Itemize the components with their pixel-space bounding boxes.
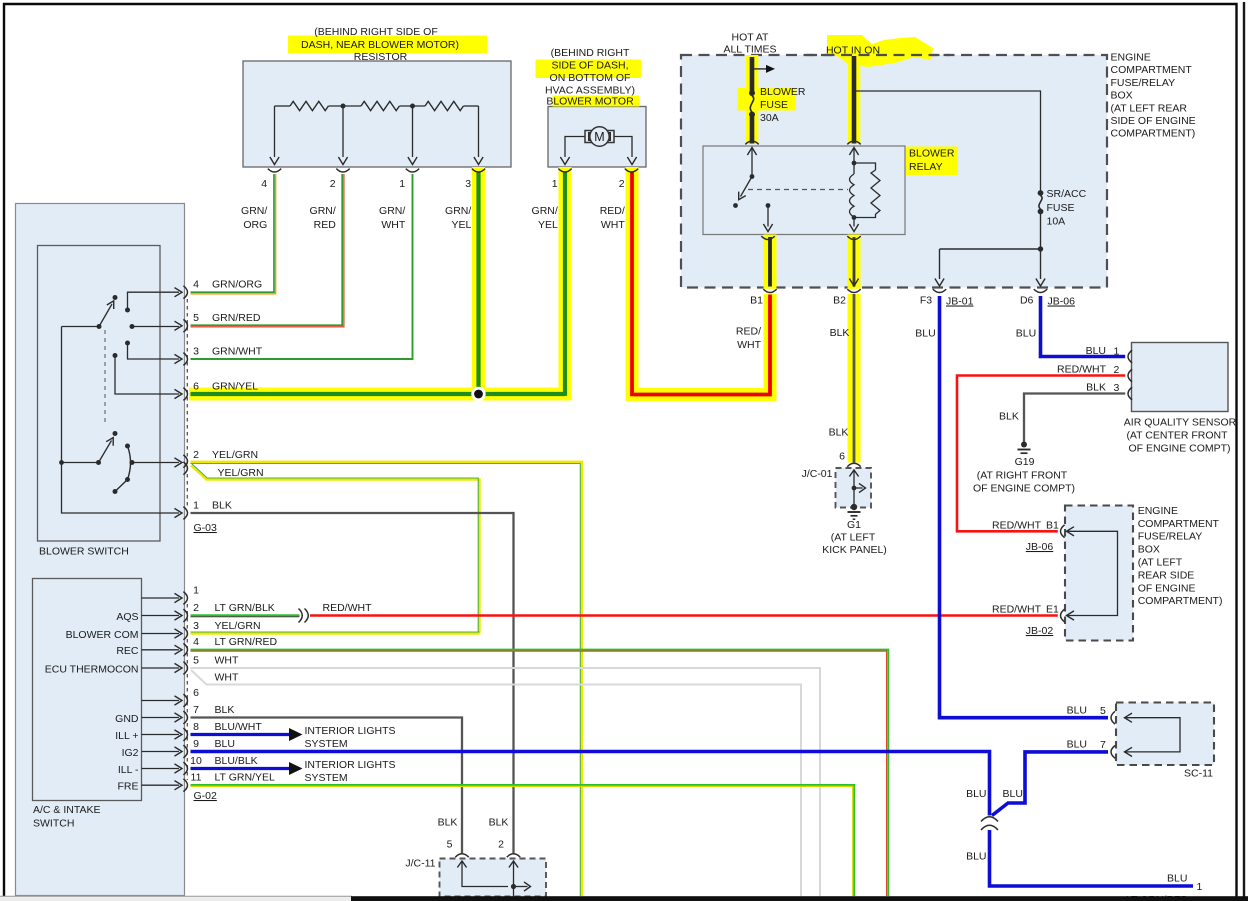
junction connector J/C-01 box — [836, 468, 872, 508]
svg-text:(AT RIGHT FRONT: (AT RIGHT FRONT — [977, 470, 1068, 482]
motor pin receptacles — [558, 169, 571, 172]
svg-text:(BEHIND RIGHT SIDE OF: (BEHIND RIGHT SIDE OF — [314, 26, 437, 38]
svg-text:RED/WHT: RED/WHT — [992, 520, 1042, 532]
svg-text:WHT: WHT — [215, 654, 239, 666]
svg-text:FUSE/RELAY: FUSE/RELAY — [1138, 531, 1203, 543]
svg-text:BLK: BLK — [830, 327, 850, 339]
svg-text:2: 2 — [498, 839, 504, 851]
svg-text:WHT: WHT — [601, 219, 625, 231]
blower switch outer box — [16, 204, 185, 896]
svg-text:BLU: BLU — [1003, 788, 1023, 800]
svg-text:BLU/WHT: BLU/WHT — [215, 721, 263, 733]
svg-text:BLU: BLU — [1086, 345, 1106, 357]
svg-text:RELAY: RELAY — [909, 161, 943, 173]
JB-02 E1 entry — [1061, 609, 1065, 622]
contact lo3 — [130, 460, 135, 465]
wire HOT AT ALL TIMES black core — [750, 57, 755, 91]
resistor pin3 lead — [478, 106, 480, 157]
svg-text:BOX: BOX — [1138, 544, 1160, 556]
band gap at B1 terminal — [763, 289, 778, 294]
svg-text:BOX: BOX — [1111, 90, 1133, 102]
svg-text:AQS: AQS — [116, 611, 138, 623]
relay pin 30 lead — [747, 148, 756, 156]
pin brackets G-02 — [183, 592, 187, 605]
resistor R3 — [425, 101, 463, 110]
svg-text:5: 5 — [193, 312, 199, 324]
svg-text:ILL -: ILL - — [118, 764, 139, 776]
svg-text:SC-11: SC-11 — [1184, 768, 1213, 780]
J/C-01 entry receptacle — [847, 463, 860, 466]
svg-text:6: 6 — [839, 451, 845, 463]
relay coil top node — [852, 161, 857, 166]
svg-text:OF ENGINE COMPT): OF ENGINE COMPT) — [973, 483, 1075, 495]
J/C-01 junction node — [852, 486, 857, 491]
svg-text:RED/: RED/ — [736, 326, 761, 338]
svg-text:4: 4 — [193, 636, 199, 648]
svg-text:3: 3 — [465, 178, 471, 190]
highlight motor caption lines — [536, 60, 642, 79]
wire GRN/RED pin5 — [191, 174, 343, 325]
svg-text:JB-06: JB-06 — [1026, 541, 1054, 553]
svg-text:BLU: BLU — [1016, 328, 1036, 340]
fuse box terminals B1 B2 F3 D6 — [763, 289, 776, 292]
svg-text:INTERIOR LIGHTS: INTERIOR LIGHTS — [305, 759, 396, 771]
node resistor tap1 — [410, 104, 415, 109]
svg-text:INTERIOR LIGHTS: INTERIOR LIGHTS — [305, 725, 396, 737]
highlight band HOT AT ALL TIMES wire — [746, 55, 759, 144]
svg-text:WHT: WHT — [215, 672, 239, 684]
svg-text:FRE: FRE — [118, 781, 139, 793]
svg-text:BLK: BLK — [438, 817, 458, 829]
blower motor box — [548, 107, 646, 168]
svg-text:(BEHIND RIGHT: (BEHIND RIGHT — [551, 47, 630, 59]
svg-text:5: 5 — [1100, 705, 1106, 717]
svg-text:B1: B1 — [750, 295, 763, 307]
J/C-01 internal wire — [849, 470, 858, 477]
svg-text:GRN/: GRN/ — [379, 205, 405, 217]
wire YEL/GRN pin3 — [191, 632, 480, 634]
svg-text:G-02: G-02 — [194, 790, 218, 802]
svg-text:5: 5 — [193, 654, 199, 666]
svg-text:1: 1 — [1197, 881, 1203, 893]
inline connector pin2 — [299, 609, 303, 623]
motor M1 leads — [565, 137, 585, 158]
svg-text:BLOWER COM: BLOWER COM — [66, 629, 139, 641]
wire BLU/WHT pin8 — [191, 733, 291, 736]
relay NO contact — [766, 203, 771, 208]
svg-text:(AT CENTER FRONT: (AT CENTER FRONT — [1126, 430, 1228, 442]
svg-text:GRN/: GRN/ — [310, 205, 336, 217]
svg-text:LT GRN/YEL: LT GRN/YEL — [215, 772, 275, 784]
blower switch inner box — [38, 246, 161, 542]
svg-text:FUSE/RELAY: FUSE/RELAY — [1111, 77, 1176, 89]
svg-text:REAR SIDE: REAR SIDE — [1138, 569, 1195, 581]
svg-text:10: 10 — [190, 755, 202, 767]
highlight band B2 BLK wire — [848, 235, 861, 463]
hot feed arrow — [754, 68, 767, 70]
svg-text:REC: REC — [116, 645, 139, 657]
svg-text:10A: 10A — [1047, 216, 1066, 228]
mechanical link dashed — [104, 330, 106, 424]
svg-text:GRN/RED: GRN/RED — [212, 312, 261, 324]
wire BLK blower switch pin1 — [191, 513, 514, 853]
relay coil bottom node — [852, 215, 857, 220]
svg-text:LT GRN/BLK: LT GRN/BLK — [215, 602, 275, 614]
svg-text:BLU: BLU — [1067, 705, 1087, 717]
motor M1 symbol — [585, 131, 614, 143]
svg-text:JB-01: JB-01 — [946, 296, 974, 308]
svg-text:3: 3 — [1114, 382, 1120, 394]
svg-text:1: 1 — [193, 499, 199, 511]
svg-text:2: 2 — [193, 449, 199, 461]
highlight BLOWER FUSE label — [738, 88, 797, 111]
contact lo5 — [113, 489, 118, 494]
relay common node — [750, 174, 755, 179]
contact hi — [113, 295, 118, 300]
contact lo4 — [125, 477, 130, 482]
air quality sensor box — [1132, 343, 1229, 412]
svg-text:BLK: BLK — [212, 499, 232, 511]
svg-text:11: 11 — [191, 772, 202, 784]
svg-text:JB-06: JB-06 — [1048, 296, 1076, 308]
svg-text:BLOWER: BLOWER — [760, 86, 806, 98]
svg-text:ENGINE: ENGINE — [1138, 505, 1178, 517]
svg-text:6: 6 — [193, 380, 199, 392]
JB internal link — [1067, 527, 1075, 536]
fuse/relay box JB right (dashed) — [1065, 506, 1133, 641]
wire BLK sensor pin3 to G19 — [1024, 394, 1125, 443]
blower switch rail — [62, 326, 100, 328]
highlight band motor pin1 GRN/YEL wire — [559, 167, 572, 388]
svg-text:GRN/: GRN/ — [241, 205, 267, 217]
svg-text:FUSE: FUSE — [760, 99, 788, 111]
svg-text:COMPARTMENT: COMPARTMENT — [1138, 518, 1220, 530]
engine compartment fuse/relay box (dashed) — [681, 55, 1107, 288]
contact arc lower — [115, 446, 131, 492]
svg-text:GRN/ORG: GRN/ORG — [212, 279, 262, 291]
svg-text:GRN/: GRN/ — [445, 205, 471, 217]
relay resistor branch — [854, 163, 876, 170]
relay coil feed — [849, 148, 858, 156]
svg-text:ON BOTTOM OF: ON BOTTOM OF — [550, 72, 631, 84]
svg-text:ORG: ORG — [243, 219, 267, 231]
wire BLU D6 to sensor pin1 — [1041, 296, 1126, 357]
connector SC-11 box — [1116, 703, 1214, 766]
contact pin3 lead — [125, 341, 130, 346]
resistor box — [243, 61, 511, 167]
svg-text:(AT LEFT: (AT LEFT — [831, 532, 876, 544]
svg-text:SWITCH: SWITCH — [33, 818, 74, 830]
svg-text:SYSTEM: SYSTEM — [305, 772, 348, 784]
resistor R1 — [290, 101, 328, 110]
svg-text:OF ENGINE: OF ENGINE — [1138, 582, 1196, 594]
svg-text:RESISTOR: RESISTOR — [354, 51, 408, 63]
right sidebar line — [1243, 2, 1245, 901]
highlight BLOWER MOTOR caption — [553, 96, 640, 107]
connector G-03 dashed boundary — [186, 299, 188, 507]
relay output lead — [767, 206, 769, 227]
svg-text:SIDE OF DASH,: SIDE OF DASH, — [551, 60, 628, 72]
wire RED/WHT sensor pin2 to JB-06 B1 — [957, 376, 1125, 532]
svg-text:J/C-11: J/C-11 — [405, 858, 435, 870]
bottom gray strip — [0, 896, 352, 901]
svg-text:BLU: BLU — [915, 328, 935, 340]
wire LT GRN/YEL pin11 — [191, 785, 855, 896]
svg-text:2: 2 — [1114, 364, 1120, 376]
svg-text:ENGINE: ENGINE — [1111, 52, 1151, 64]
svg-text:SR/ACC: SR/ACC — [1047, 188, 1087, 200]
svg-text:2: 2 — [330, 178, 336, 190]
svg-text:IG2: IG2 — [122, 747, 139, 759]
svg-text:JB-02: JB-02 — [1026, 625, 1054, 637]
svg-text:3: 3 — [193, 620, 199, 632]
wire BLU/BLK pin10 — [191, 767, 291, 770]
svg-text:A/C & INTAKE: A/C & INTAKE — [33, 804, 101, 816]
junction connector J/C-11 box — [440, 859, 547, 897]
svg-text:BLU: BLU — [966, 851, 986, 863]
wire LT GRN/RED pin4 — [191, 650, 889, 896]
svg-text:BLK: BLK — [999, 411, 1019, 423]
svg-text:1: 1 — [552, 178, 558, 190]
A/C switch pin leads — [142, 597, 180, 599]
wire to SR/ACC fuse — [856, 91, 1041, 191]
highlight band resistor pin3 GRN/YEL wire — [472, 167, 485, 388]
resistor pin1 lead — [412, 106, 414, 157]
svg-text:COMPARTMENT: COMPARTMENT — [1111, 64, 1193, 76]
svg-text:GND: GND — [115, 713, 139, 725]
SC-11 pin7 entry — [1111, 746, 1115, 759]
svg-text:YEL: YEL — [538, 219, 558, 231]
wire HOT IN ON black core — [852, 56, 857, 144]
svg-text:3: 3 — [193, 345, 199, 357]
svg-text:(AT LEFT: (AT LEFT — [1138, 557, 1183, 569]
connector G-02 dashed boundary — [186, 604, 188, 780]
svg-text:J/C-01: J/C-01 — [802, 468, 833, 480]
wire RED/WHT pin2 long to JB-02 E1 — [310, 614, 1058, 617]
contact pin4 lead — [125, 308, 130, 313]
svg-text:RED/WHT: RED/WHT — [992, 604, 1042, 616]
svg-text:HOT IN ON: HOT IN ON — [826, 45, 880, 57]
pin brackets G-03 — [183, 286, 187, 299]
highlight BLOWER RELAY label — [906, 147, 958, 176]
svg-text:GRN/WHT: GRN/WHT — [212, 345, 263, 357]
blower switch blade upper — [99, 304, 112, 327]
svg-text:YEL/GRN: YEL/GRN — [218, 467, 264, 479]
svg-text:6: 6 — [193, 687, 199, 699]
svg-text:1: 1 — [193, 584, 199, 596]
relay blade contact — [733, 203, 738, 208]
svg-text:WHT: WHT — [737, 339, 761, 351]
J/C-11 internal wires — [457, 861, 466, 868]
wire BLK pin7 — [191, 718, 463, 854]
contact lo2 — [125, 444, 130, 449]
wire GRN/ORG pin4 — [191, 174, 275, 292]
wire LT GRN/BLK pin2 — [191, 614, 300, 616]
svg-text:G-03: G-03 — [194, 522, 218, 534]
svg-text:B1: B1 — [1046, 520, 1059, 532]
svg-text:BLU: BLU — [1067, 739, 1087, 751]
arrow to interior lights (ILL-) — [289, 762, 303, 775]
svg-text:COMPARTMENT): COMPARTMENT) — [1138, 595, 1223, 607]
svg-text:BLOWER: BLOWER — [909, 148, 955, 160]
svg-text:GRN/YEL: GRN/YEL — [212, 380, 258, 392]
resistor pin2 lead — [342, 106, 344, 157]
svg-text:B2: B2 — [833, 295, 846, 307]
node resistor tap2 — [341, 104, 346, 109]
A/C & intake switch box — [33, 579, 142, 801]
svg-text:AIR QUALITY SENSOR: AIR QUALITY SENSOR — [1124, 417, 1237, 429]
svg-text:BLU/BLK: BLU/BLK — [215, 755, 258, 767]
svg-text:DASH, NEAR BLOWER MOTOR): DASH, NEAR BLOWER MOTOR) — [301, 39, 459, 51]
svg-text:D6: D6 — [1020, 295, 1034, 307]
svg-text:30A: 30A — [760, 112, 779, 124]
ground G1 — [851, 504, 857, 510]
highlight band HOT IN ON wire — [848, 46, 861, 144]
svg-text:RED/WHT: RED/WHT — [1057, 364, 1107, 376]
svg-text:YEL/GRN: YEL/GRN — [212, 449, 258, 461]
svg-text:SIDE OF ENGINE: SIDE OF ENGINE — [1111, 115, 1196, 127]
contact pin5 lead — [130, 324, 135, 329]
svg-text:YEL: YEL — [451, 219, 471, 231]
band gap at B2 terminal — [847, 289, 862, 294]
svg-text:7: 7 — [1100, 739, 1106, 751]
wire branch to F3 — [940, 248, 1041, 250]
relay top receptacles — [745, 141, 758, 144]
highlight HOT IN ON — [827, 35, 933, 67]
wire SR/ACC fuse to D6 — [1040, 214, 1042, 280]
svg-text:BLOWER MOTOR: BLOWER MOTOR — [546, 96, 634, 108]
JB-06 B1 entry — [1061, 525, 1065, 538]
svg-text:M: M — [594, 130, 604, 144]
svg-text:BLK: BLK — [215, 704, 235, 716]
svg-text:1: 1 — [399, 178, 405, 190]
contact pin6 lead — [113, 353, 118, 358]
svg-text:FUSE: FUSE — [1047, 202, 1075, 214]
svg-text:HOT AT: HOT AT — [732, 32, 770, 44]
svg-text:RED/: RED/ — [600, 205, 625, 217]
relay coil output — [853, 218, 855, 227]
wire BLU SC-11 pin7 — [992, 752, 1108, 816]
ground G19 — [1021, 442, 1027, 448]
svg-text:2: 2 — [619, 178, 625, 190]
svg-text:F3: F3 — [920, 295, 932, 307]
svg-text:RED: RED — [314, 219, 337, 231]
svg-text:COMPARTMENT): COMPARTMENT) — [1111, 128, 1196, 140]
junction GRN/YEL node — [471, 387, 485, 401]
sensor pin brackets — [1128, 350, 1132, 363]
wire YEL/GRN second run — [191, 466, 480, 634]
blower switch pivot lower — [96, 460, 101, 465]
resistor pin4 lead — [274, 106, 276, 157]
svg-text:YEL/GRN: YEL/GRN — [215, 620, 261, 632]
highlight resistor caption — [288, 36, 487, 54]
highlight band RED/WHT wire B1-motor — [626, 167, 777, 401]
svg-text:5: 5 — [447, 839, 453, 851]
wire BLU pin9 long — [191, 752, 990, 816]
svg-text:ALL TIMES: ALL TIMES — [723, 44, 776, 56]
svg-text:BLK: BLK — [1086, 382, 1106, 394]
SC-11 internal link — [1125, 713, 1133, 722]
svg-text:LT GRN/RED: LT GRN/RED — [215, 636, 278, 648]
wire YEL/GRN pin2 to bottom — [191, 462, 582, 896]
svg-text:BLU: BLU — [215, 738, 235, 750]
inline connector BLU break — [981, 817, 998, 822]
svg-text:2: 2 — [193, 602, 199, 614]
wire WHT pin5 — [191, 668, 821, 896]
wire B2 BLK core — [853, 237, 856, 287]
blower switch blade lower — [99, 441, 112, 463]
J/C-11 junction node — [511, 884, 516, 889]
svg-text:RED/WHT: RED/WHT — [323, 602, 373, 614]
SC-11 pin5 entry — [1111, 711, 1115, 724]
J/C-11 entry receptacles — [455, 854, 468, 857]
rail junction — [59, 460, 64, 465]
bottom black bar — [351, 896, 1248, 901]
resistor R2 — [361, 101, 399, 110]
blower switch pivot upper — [97, 324, 102, 329]
svg-text:8: 8 — [193, 721, 199, 733]
svg-text:4: 4 — [261, 178, 267, 190]
svg-text:7: 7 — [193, 704, 199, 716]
svg-text:9: 9 — [193, 738, 199, 750]
svg-text:(AT LEFT REAR: (AT LEFT REAR — [1111, 102, 1188, 114]
wire GRN/YEL thick core pin6 — [191, 392, 566, 396]
wire BLU F3 to SC-11 pin5 — [940, 296, 1109, 718]
highlight band GRN/YEL horizontal wire — [189, 388, 572, 401]
svg-text:KICK PANEL): KICK PANEL) — [822, 544, 887, 556]
contact lo1 — [113, 431, 118, 436]
fuse SR/ACC 10A — [1038, 190, 1044, 196]
relay actuate dashed link — [748, 189, 848, 191]
svg-text:ILL +: ILL + — [115, 730, 138, 742]
svg-text:1: 1 — [1114, 346, 1120, 358]
svg-text:E1: E1 — [1046, 604, 1059, 616]
svg-text:SYSTEM: SYSTEM — [305, 738, 348, 750]
svg-text:BLU: BLU — [1167, 873, 1187, 885]
svg-text:WHT: WHT — [381, 219, 405, 231]
svg-text:BLU: BLU — [966, 788, 986, 800]
svg-text:GRN/: GRN/ — [532, 205, 558, 217]
relay switch blade — [741, 177, 753, 197]
resistor bus wire — [275, 105, 291, 107]
svg-text:G19: G19 — [1015, 456, 1035, 468]
resistor pin receptacles — [268, 169, 281, 172]
wire GRN/WHT pin3 — [191, 174, 413, 359]
svg-text:BLOWER SWITCH: BLOWER SWITCH — [39, 546, 129, 558]
wire B1 RED/WHT core — [768, 237, 772, 287]
svg-text:G1: G1 — [847, 519, 861, 531]
svg-text:4: 4 — [193, 279, 199, 291]
fuse BLOWER FUSE 30A — [749, 90, 755, 96]
blower relay box U1 — [703, 146, 905, 235]
relay coil — [850, 174, 855, 217]
svg-text:ECU THERMOCON: ECU THERMOCON — [45, 663, 139, 675]
junction node SR/ACC branch — [1038, 246, 1043, 251]
svg-text:BLK: BLK — [489, 817, 509, 829]
relay bottom receptacles — [761, 236, 774, 239]
wire WHT second run — [191, 670, 801, 896]
arrow to interior lights (ILL+) — [289, 728, 303, 741]
svg-text:OF ENGINE COMPT): OF ENGINE COMPT) — [1128, 443, 1230, 455]
svg-text:BLK: BLK — [829, 427, 849, 439]
